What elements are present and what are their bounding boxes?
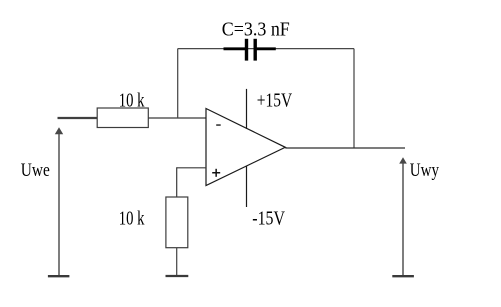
source arrow Uwe: [55, 127, 63, 275]
svg-text:Uwe: Uwe: [21, 161, 50, 181]
wire R2 to ground: [176, 248, 178, 276]
source arrow Uwy: [399, 157, 407, 275]
wire feedback top: [178, 48, 354, 50]
label R2 value 10k: [119, 208, 145, 230]
svg-text:C=3.3 nF: C=3.3 nF: [222, 18, 290, 40]
label Uwe: [21, 161, 50, 181]
ground bar Uwy: [392, 275, 414, 277]
svg-text:-15V: -15V: [252, 209, 285, 230]
node A feedback junction: [177, 49, 179, 118]
svg-text:10 k: 10 k: [119, 208, 145, 230]
ground bar R2: [166, 275, 189, 277]
ground bar Uwe: [48, 275, 70, 277]
label +15V: [257, 90, 293, 112]
label C value C=3.3nF: [222, 18, 290, 40]
svg-text:10 k: 10 k: [119, 90, 145, 112]
pin V- supply: [246, 166, 248, 207]
wire output: [285, 147, 405, 149]
wire R1 to inverting input: [148, 117, 206, 119]
resistor R1 10k horizontal: [97, 108, 148, 128]
wire feedback right leg: [353, 49, 355, 148]
op-amp U1 triangle: [206, 109, 285, 186]
resistor R2 10k vertical: [166, 197, 188, 248]
capacitor C 3.3nF: [224, 39, 276, 61]
label Uwy: [410, 161, 440, 181]
label -15V: [252, 209, 285, 230]
svg-text:Uwy: Uwy: [410, 161, 440, 181]
pin inverting input minus sign: [216, 124, 221, 126]
wire input left segment: [58, 117, 98, 119]
label R1 value 10k: [119, 90, 145, 112]
pin V+ supply: [246, 89, 248, 129]
wire non-inverting input: [177, 167, 206, 197]
pin non-inverting input plus sign: [212, 169, 220, 177]
svg-text:+15V: +15V: [257, 90, 293, 112]
